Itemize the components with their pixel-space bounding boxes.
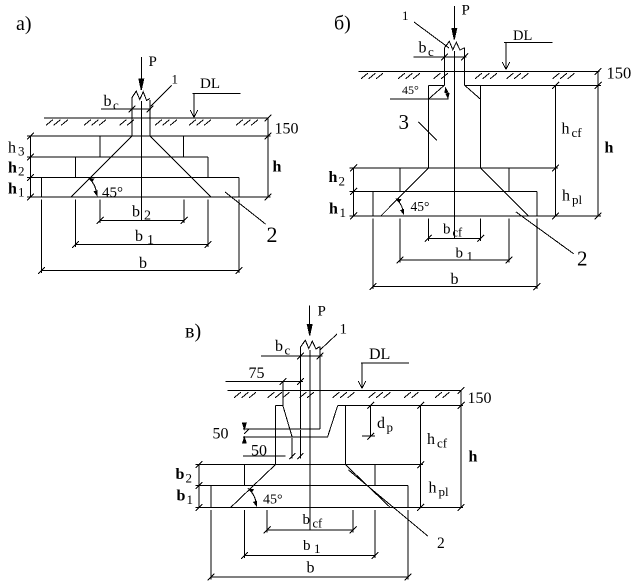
svg-text:P: P: [149, 54, 157, 70]
svg-text:50: 50: [213, 426, 229, 443]
svg-text:b: b: [176, 466, 185, 483]
svg-text:1: 1: [172, 72, 179, 87]
svg-text:b: b: [104, 93, 112, 110]
svg-text:h: h: [469, 449, 478, 466]
svg-text:c: c: [285, 343, 291, 358]
svg-text:1: 1: [467, 249, 474, 264]
svg-text:b: b: [275, 338, 283, 355]
svg-text:h: h: [427, 431, 435, 448]
svg-text:p: p: [387, 420, 394, 435]
svg-text:45°: 45°: [263, 493, 283, 508]
svg-text:2: 2: [577, 247, 588, 271]
svg-text:P: P: [318, 304, 326, 320]
svg-text:d: d: [377, 415, 385, 432]
svg-text:45°: 45°: [102, 185, 123, 201]
svg-text:h: h: [329, 169, 338, 186]
svg-text:b: b: [303, 512, 311, 528]
svg-text:h: h: [605, 140, 614, 157]
svg-text:75: 75: [249, 365, 265, 382]
svg-text:b: b: [135, 228, 143, 245]
svg-text:cf: cf: [437, 436, 448, 451]
svg-text:DL: DL: [200, 76, 220, 92]
svg-text:3: 3: [18, 144, 25, 159]
svg-text:cf: cf: [572, 125, 583, 140]
svg-text:а): а): [16, 13, 32, 35]
svg-text:h: h: [562, 121, 570, 138]
svg-text:b: b: [451, 271, 459, 288]
svg-text:h: h: [8, 140, 16, 157]
svg-text:2: 2: [437, 535, 445, 552]
svg-text:pl: pl: [572, 192, 583, 207]
svg-text:b: b: [307, 560, 315, 577]
svg-text:b: b: [132, 204, 140, 221]
svg-text:б): б): [334, 13, 351, 35]
svg-text:45°: 45°: [411, 199, 430, 214]
svg-text:h: h: [8, 160, 17, 177]
svg-text:h: h: [273, 159, 282, 176]
svg-text:b: b: [303, 538, 311, 554]
svg-text:b: b: [419, 40, 427, 57]
svg-text:b: b: [177, 488, 186, 505]
svg-text:b: b: [456, 246, 464, 262]
svg-text:cf: cf: [313, 517, 324, 531]
svg-text:1: 1: [340, 322, 348, 338]
svg-text:2: 2: [267, 222, 278, 247]
svg-text:h: h: [8, 181, 17, 198]
svg-text:2: 2: [144, 209, 151, 224]
svg-text:h: h: [429, 480, 437, 497]
svg-text:DL: DL: [369, 346, 390, 363]
svg-text:cf: cf: [453, 226, 464, 240]
svg-text:b: b: [139, 255, 147, 272]
svg-text:3: 3: [399, 110, 410, 134]
svg-text:h: h: [329, 201, 338, 218]
svg-text:в): в): [185, 321, 201, 343]
svg-text:1: 1: [147, 233, 154, 248]
svg-text:2: 2: [186, 471, 193, 486]
svg-text:1: 1: [340, 205, 347, 220]
svg-text:1: 1: [402, 8, 409, 23]
svg-text:150: 150: [468, 390, 492, 407]
svg-text:50: 50: [251, 443, 267, 460]
svg-text:150: 150: [607, 64, 632, 83]
svg-text:c: c: [113, 98, 119, 113]
svg-text:1: 1: [18, 185, 25, 200]
svg-text:1: 1: [314, 541, 321, 556]
svg-text:2: 2: [339, 174, 346, 189]
svg-text:45°: 45°: [402, 83, 419, 97]
svg-text:h: h: [562, 188, 570, 205]
svg-text:150: 150: [275, 121, 299, 138]
svg-text:pl: pl: [439, 484, 450, 499]
svg-text:1: 1: [187, 492, 194, 507]
svg-text:2: 2: [18, 164, 25, 179]
svg-text:b: b: [443, 222, 451, 238]
svg-text:DL: DL: [513, 28, 532, 44]
svg-text:P: P: [462, 3, 470, 19]
